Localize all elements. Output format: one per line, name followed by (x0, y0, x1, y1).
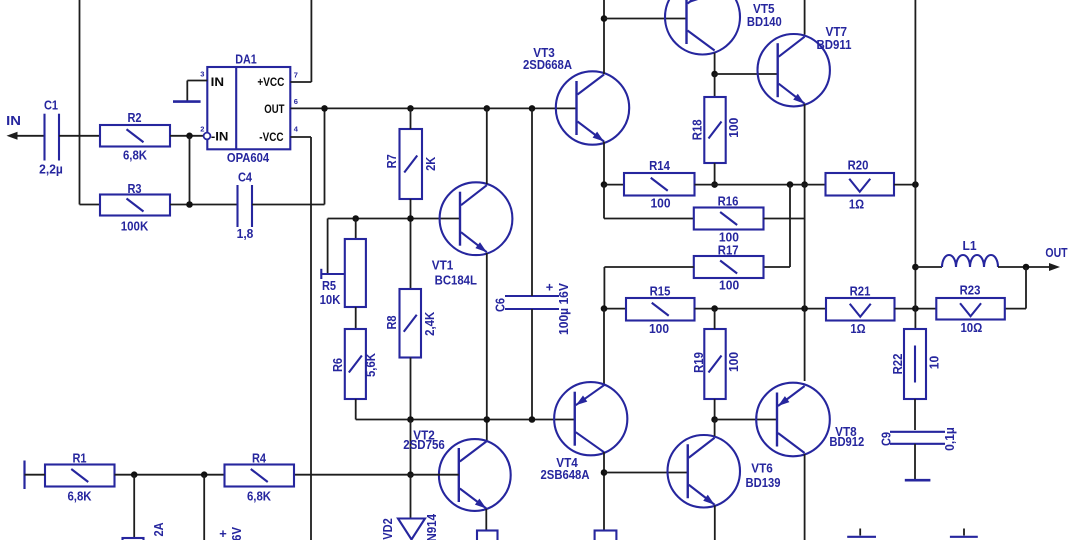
capacitor C4 (236, 185, 238, 227)
resistor R9 (partial at edge) (477, 531, 498, 540)
inverting input bubble pin 2 (204, 133, 211, 140)
trimmer R5 tap (320, 269, 322, 279)
wire: R15 right to R21 (695, 308, 827, 310)
resistor R6 (345, 329, 366, 399)
svg-text:2SD668A: 2SD668A (523, 57, 573, 72)
wire: emitter resistor row y=184.6 (604, 184, 624, 186)
node: VT7 base junction (711, 71, 718, 78)
node: VT8 emitter rail junction (801, 305, 808, 312)
node: OUT feedback junction (321, 105, 328, 112)
svg-text:+: + (219, 526, 227, 540)
wire: VT1 collector up (486, 108, 488, 184)
transistor VT5 BD140 (665, 0, 740, 55)
svg-text:BD139: BD139 (746, 475, 781, 490)
wire: to R3 (80, 204, 101, 206)
wire: R18 top lead (714, 74, 716, 97)
resistor R17 (694, 256, 764, 278)
svg-text:BD911: BD911 (817, 37, 852, 52)
svg-text:4: 4 (294, 124, 299, 133)
wire: VT4 collector down (603, 452, 605, 531)
node: R20 output rail junction (912, 181, 919, 188)
node: R18 bottom junction (711, 181, 718, 188)
svg-text:R2: R2 (127, 110, 141, 125)
svg-text:IN: IN (211, 75, 224, 89)
svg-text:L1: L1 (963, 238, 977, 253)
svg-text:100: 100 (650, 196, 670, 211)
wire: C6 bottom lead (531, 309, 533, 420)
svg-text:6: 6 (294, 97, 298, 106)
svg-text:VD2: VD2 (380, 518, 395, 540)
svg-text:+VCC: +VCC (257, 75, 284, 89)
svg-text:2SB648A: 2SB648A (541, 467, 591, 482)
wire: VT2 base from R4 rail (294, 474, 459, 476)
resistor R15 (626, 298, 695, 321)
wire: R5 top lead (355, 219, 357, 240)
transistor VT8 BD912 (756, 383, 830, 457)
svg-text:OPA604: OPA604 (227, 150, 270, 165)
svg-text:OUT: OUT (1045, 245, 1067, 260)
resistor R21 (826, 298, 895, 321)
svg-text:R23: R23 (960, 283, 981, 298)
svg-text:R14: R14 (649, 158, 670, 173)
svg-text:1Ω: 1Ω (849, 197, 864, 212)
wire: VT1 emitter down / VT2 collector (486, 253, 488, 442)
fuse FU1 2A (partial at edge) (123, 538, 144, 540)
wire: pin 7 +VCC up (290, 81, 311, 83)
resistor R2 (100, 125, 170, 147)
svg-text:R19: R19 (691, 352, 706, 373)
wire: R2 to -IN node (170, 135, 204, 137)
resistor R5 (trimmer) (345, 239, 366, 307)
svg-text:10K: 10K (320, 292, 341, 307)
svg-text:3: 3 (200, 69, 204, 78)
node: L1 tap junction (912, 264, 919, 271)
wire: pin 4 -VCC down rail (290, 136, 311, 138)
svg-text:R22: R22 (890, 354, 905, 375)
svg-text:R6: R6 (330, 358, 345, 372)
svg-text:+: + (546, 280, 554, 295)
node: VT1-VT2 junction on bias rail (484, 416, 491, 423)
capacitor C6 electrolytic (505, 295, 559, 297)
wire: terminal to R1 (25, 474, 46, 476)
wire: R22 bottom to C9 (914, 399, 916, 430)
capacitor C1 (43, 114, 45, 161)
node: R16/R17 cross junction a (787, 181, 794, 188)
svg-text:BD140: BD140 (747, 14, 782, 29)
wire: VD2 anode lead (410, 475, 412, 518)
svg-text:1,8: 1,8 (237, 226, 254, 241)
IN arrow terminal (7, 132, 18, 140)
resistor R23 (936, 298, 1005, 320)
svg-text:C4: C4 (238, 170, 253, 185)
wire: R5 to R6 (355, 307, 357, 329)
wire: VT7 collector to top (804, 0, 806, 35)
input terminal bar (23, 461, 25, 490)
wire: vertical feedback rail x=79.5 from top (79, 0, 81, 205)
svg-text:100K: 100K (121, 219, 149, 234)
node: VT7 emitter junction (801, 181, 808, 188)
svg-text:VT6: VT6 (751, 461, 773, 476)
wire: VT8 emitter rail up (804, 185, 806, 381)
svg-text:BC184L: BC184L (435, 273, 477, 288)
svg-text:R3: R3 (127, 181, 141, 196)
wire: R16 right to rail x=804.6 (764, 218, 805, 220)
resistor R22 (904, 329, 926, 399)
wire: R17 right up to junction a (764, 266, 791, 268)
wire: VT6 collector up (714, 420, 716, 437)
wire: input to C1 (12, 135, 46, 137)
resistor R14 (624, 173, 695, 196)
svg-text:100: 100 (649, 321, 669, 336)
resistor R20 (826, 173, 895, 196)
node: C6 bottom junction (529, 416, 536, 423)
wire: main output rail x=915.4 (914, 0, 916, 309)
svg-text:R7: R7 (384, 154, 399, 168)
wire: C6 top lead (531, 108, 533, 296)
node: R7 top junction (407, 105, 414, 112)
wire: down to fuse (133, 475, 135, 538)
svg-text:10Ω: 10Ω (960, 320, 982, 335)
svg-text:6,8K: 6,8K (67, 488, 92, 503)
node: VT1 collector junction (484, 105, 491, 112)
svg-text:R17: R17 (718, 243, 739, 258)
svg-text:-IN: -IN (211, 130, 229, 144)
wire: VT7 emitter down (804, 104, 806, 185)
inductor L1 (942, 255, 998, 267)
wire: R17 left corner down to R15 node (604, 266, 693, 268)
svg-text:OUT: OUT (264, 102, 285, 116)
diode VD2 1N914 (398, 519, 425, 540)
svg-text:6,8K: 6,8K (123, 147, 148, 162)
wire: VT3 collector up to VT5 base node (603, 0, 605, 74)
wire: R15 row (604, 308, 626, 310)
wire: C9 to ground (914, 444, 916, 479)
resistor R4 (225, 465, 295, 487)
node: fuse junction (131, 471, 138, 478)
resistor R19 (704, 329, 725, 399)
svg-text:2: 2 (200, 124, 204, 133)
svg-text:2A: 2A (151, 522, 166, 537)
svg-text:IN: IN (6, 113, 21, 128)
node: R19 top junction (711, 305, 718, 312)
resistor R1 (45, 465, 115, 487)
wire: -IN node down to R3 node (189, 136, 191, 205)
wire: R5 tap to top of R5 (327, 219, 329, 274)
wire: R7 bottom to R8 top (410, 199, 412, 289)
wire: C4 to OUT rail corner (252, 204, 325, 206)
wire: rail to L1 (915, 266, 942, 268)
ground for pin 3 (173, 100, 201, 103)
transistor VT6 BD139 (668, 435, 741, 508)
node: VT1 base junction (407, 215, 414, 222)
resistor R8 (400, 289, 422, 358)
svg-text:5,6K: 5,6K (363, 352, 378, 377)
svg-text:C1: C1 (44, 98, 58, 113)
wire: R8 bottom (410, 358, 412, 420)
wire: R1 to R4 (115, 474, 225, 476)
wire: R3 to C4 (170, 204, 238, 206)
svg-text:R8: R8 (384, 315, 399, 329)
resistor R10 (partial at edge) (595, 531, 617, 540)
svg-text:R1: R1 (72, 451, 86, 466)
svg-text:VT1: VT1 (432, 257, 454, 272)
wire: R19 top lead (714, 309, 716, 329)
wire: VT8 collector down (804, 454, 806, 540)
node: OUT junction (1023, 264, 1030, 271)
wire: VT8 base (715, 419, 777, 421)
wire: R19 bottom lead (714, 399, 716, 420)
transistor VT1 BC184L (440, 182, 513, 255)
svg-text:C9: C9 (879, 432, 894, 446)
wire: R21 right to R23 left (895, 308, 937, 310)
wire: R6 bottom corner to bias rail (355, 399, 357, 420)
node: R3-C4 junction (186, 201, 193, 208)
wire: VT6 base (604, 472, 688, 474)
wire: VT3 emitter to R16 (603, 185, 605, 219)
svg-text:BD912: BD912 (829, 434, 864, 449)
wire: VT4 emitter up rail (603, 309, 605, 386)
wire: VT3 emitter down (603, 142, 605, 185)
svg-text:0,1µ: 0,1µ (942, 427, 957, 451)
transistor VT3 2SD668A (556, 71, 629, 144)
node: VT5 base junction (601, 15, 608, 22)
wire: pin 3 stub (187, 80, 207, 82)
svg-text:R15: R15 (650, 284, 671, 299)
node: VT6 base junction (601, 469, 608, 476)
transistor VT2 2SD756 (439, 439, 511, 511)
node: R5 top junction (352, 215, 359, 222)
wire: rail to R22 top (914, 309, 916, 329)
wire: down to 6V capacitor (203, 475, 205, 540)
transistor VT7 BD911 (758, 34, 830, 106)
svg-text:R18: R18 (690, 119, 705, 140)
svg-text:10: 10 (927, 356, 942, 369)
svg-text:6,8K: 6,8K (247, 488, 272, 503)
wire: VT6 emitter down (714, 506, 716, 540)
node: R8 bottom junction (407, 416, 414, 423)
svg-text:R21: R21 (850, 284, 871, 299)
resistor R16 (694, 208, 764, 230)
wire: L1 to OUT (998, 266, 1053, 268)
wire: VT7 base (715, 73, 778, 75)
decoupling capacitor at bottom edge 1 (859, 529, 861, 536)
transistor VT4 2SB648A (554, 382, 627, 455)
node: VD2 junction (407, 471, 414, 478)
wire: OUT node down to R23 (1025, 267, 1027, 309)
resistor R7 (400, 129, 423, 199)
svg-text:R20: R20 (848, 158, 869, 173)
svg-text:C6: C6 (493, 298, 508, 312)
node: output rail R22 junction (912, 305, 919, 312)
OUT arrow (1049, 263, 1060, 271)
node: VT3 emitter junction (601, 181, 608, 188)
svg-text:R4: R4 (252, 451, 267, 466)
wire: R7 top (410, 108, 412, 129)
wire: opamp OUT to VT3 base (290, 107, 576, 109)
svg-text:2SD756: 2SD756 (403, 437, 445, 452)
svg-text:100: 100 (726, 118, 741, 138)
wire: R20 right to output rail (894, 184, 915, 186)
wire: VT5 collector down (714, 53, 716, 74)
wire: R18 bottom lead (714, 163, 716, 185)
svg-text:-VCC: -VCC (259, 130, 284, 144)
svg-text:100µ 16V: 100µ 16V (556, 283, 571, 335)
svg-text:2,4K: 2,4K (422, 311, 437, 336)
node: C6 top junction (529, 105, 536, 112)
svg-text:7: 7 (294, 70, 298, 79)
resistor R3 (100, 195, 170, 216)
svg-text:1N914: 1N914 (424, 513, 439, 540)
svg-text:2K: 2K (423, 156, 438, 171)
resistor R18 (704, 97, 725, 163)
decoupling capacitor at bottom edge 2 (963, 529, 965, 536)
svg-text:2,2µ: 2,2µ (39, 162, 63, 177)
node: -IN junction (186, 133, 193, 140)
svg-text:6V: 6V (229, 527, 244, 540)
svg-text:100: 100 (719, 278, 739, 293)
wire: VT2 emitter down to R9 (485, 509, 487, 531)
op-amp U1 DA1 OPA604 (207, 67, 290, 149)
node: R15 left junction (601, 305, 608, 312)
wire: R14 right to R20 left (695, 184, 826, 186)
wire: down to VT2 base rail (410, 420, 412, 475)
wire: C1 to R2 (59, 135, 100, 137)
wire: VT5 base (604, 18, 687, 20)
svg-text:1Ω: 1Ω (850, 321, 865, 336)
node: R19 bottom junction (711, 416, 718, 423)
node: 6V cap junction (201, 471, 208, 478)
ground for C9 (905, 479, 931, 482)
svg-text:R16: R16 (718, 194, 739, 209)
svg-text:DA1: DA1 (235, 52, 257, 67)
capacitor C9 (890, 431, 945, 433)
svg-text:100: 100 (726, 352, 741, 372)
